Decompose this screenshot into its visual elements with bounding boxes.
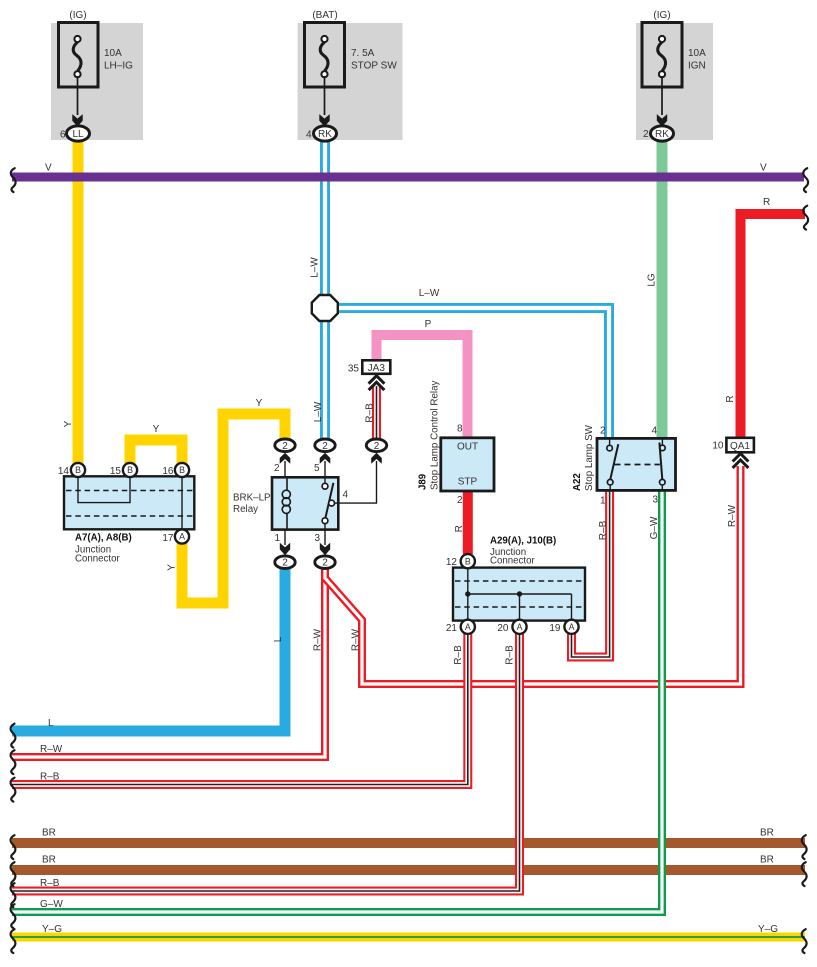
svg-text:7. 5A: 7. 5A [351, 48, 375, 59]
label Y pin 17 wire [167, 564, 178, 571]
svg-text:R–W: R–W [727, 504, 738, 527]
relay switch [322, 477, 334, 529]
fuse block background middle [298, 23, 403, 140]
label P [425, 319, 432, 330]
svg-text:V: V [45, 163, 52, 174]
label (IG) fuse 1 [69, 10, 86, 21]
node 12 B [446, 554, 475, 568]
break mark R-B bus left [11, 778, 16, 802]
svg-text:P: P [425, 319, 432, 330]
wire G-W from A22 pin 3 to left bus [12, 490, 662, 912]
relay pin 5 stub [314, 453, 330, 478]
wire Y-G bus [12, 933, 805, 942]
break mark V bus right [803, 168, 808, 192]
node 16 B [162, 463, 189, 477]
label (IG) fuse 3 [653, 10, 670, 21]
fuse 7.5A STOP SW [305, 23, 345, 127]
break mark Y-G bus right [802, 929, 807, 953]
svg-text:2: 2 [322, 441, 328, 452]
label BR lower left [42, 855, 56, 866]
svg-text:A7(A), A8(B): A7(A), A8(B) [75, 533, 132, 544]
svg-text:6: 6 [60, 130, 66, 141]
svg-text:2: 2 [282, 558, 288, 569]
label G-W bus [40, 899, 63, 910]
label Y jumper [153, 424, 160, 435]
label pin 8 [457, 424, 463, 435]
connector 2 RK [643, 126, 674, 141]
svg-text:Y: Y [153, 424, 160, 435]
svg-text:R–B: R–B [40, 772, 60, 783]
label R-B lower bus [40, 878, 60, 889]
svg-text:2: 2 [600, 426, 606, 437]
svg-text:4: 4 [306, 130, 312, 141]
svg-text:3: 3 [652, 495, 658, 506]
break mark R-W bus left [11, 750, 16, 774]
svg-text:IGN: IGN [688, 61, 706, 72]
wire R-W from QA1 down and across to relay pin 3 branch [325, 466, 741, 684]
svg-text:R–W: R–W [351, 628, 362, 651]
svg-text:2: 2 [643, 129, 649, 140]
wire R-B from A22 pin 1 to A29 pin 19 [572, 490, 610, 657]
svg-text:Stop Lamp SW: Stop Lamp SW [584, 424, 595, 491]
svg-text:14: 14 [58, 466, 70, 477]
label R-B pin21 wire [453, 645, 464, 665]
svg-text:J89: J89 [418, 473, 429, 490]
svg-text:L–W: L–W [310, 257, 321, 278]
label 10A IGN [688, 48, 706, 72]
svg-text:LH–IG: LH–IG [104, 61, 133, 72]
fuse block background right [636, 23, 713, 140]
label 7.5A STOP SW [351, 48, 397, 72]
connector 10 QA1 [712, 438, 754, 453]
fuse block background left [51, 23, 143, 140]
svg-text:Stop Lamp Control Relay: Stop Lamp Control Relay [430, 380, 441, 490]
switch A22 Stop Lamp SW box [597, 438, 676, 490]
relay pin 3 stub [314, 530, 330, 556]
svg-text:A: A [465, 622, 471, 632]
svg-text:BR: BR [760, 855, 774, 866]
break mark Y-G bus left [11, 929, 16, 953]
svg-text:BR: BR [760, 828, 774, 839]
label BR upper left [42, 828, 56, 839]
label Y top horizontal [256, 398, 263, 409]
node 20 A [497, 620, 526, 634]
svg-text:R–W: R–W [313, 628, 324, 651]
wire Y jumper A7 pin 15 to pin 16 [130, 440, 182, 464]
svg-text:2: 2 [322, 558, 328, 569]
svg-text:R–B: R–B [40, 878, 60, 889]
wire Y from fuse LH-IG to junction A7 pin 14 [73, 140, 84, 464]
wire R-B from JA3 to relay pin 4 oval [372, 386, 381, 439]
svg-text:L–W: L–W [419, 288, 440, 299]
svg-text:OUT: OUT [457, 442, 478, 453]
label J89 Stop Lamp Control Relay [418, 380, 441, 490]
break mark BR upper right [802, 835, 807, 859]
wire BR bus lower [12, 865, 805, 875]
wire R from J89 STP pin 2 to A29 pin 12 [463, 491, 473, 554]
node 15 B [110, 463, 137, 477]
label L-W lower [313, 401, 324, 422]
svg-text:1: 1 [600, 496, 606, 507]
wire L from relay pin 1 to left bus [12, 568, 285, 731]
svg-text:10: 10 [712, 441, 724, 452]
relay pin 4 link to R-B oval [335, 461, 377, 503]
wire L-W from octagon junction to A22 pin 2 [336, 308, 609, 439]
svg-text:R: R [725, 395, 736, 402]
connector 35 JA3 [348, 360, 390, 374]
svg-text:QA1: QA1 [730, 441, 750, 452]
node relay pin 3 oval [315, 556, 335, 569]
wire R-B from A29 pin 20 to left bus [12, 632, 520, 891]
node 19 A [549, 620, 578, 634]
svg-text:L–W: L–W [313, 401, 324, 422]
svg-text:JA3: JA3 [368, 363, 386, 374]
svg-text:2: 2 [374, 441, 380, 452]
svg-text:R–W: R–W [40, 744, 63, 755]
svg-text:BR: BR [42, 828, 56, 839]
label R STP wire [454, 525, 465, 532]
svg-text:STP: STP [458, 477, 478, 488]
label R-W relay left [313, 628, 324, 651]
svg-text:A: A [517, 622, 523, 632]
label R-W QA1 wire [727, 504, 738, 527]
label L-W horizontal [419, 288, 440, 299]
node relay pin 4 oval [366, 439, 386, 452]
relay coil [282, 477, 290, 529]
svg-text:8: 8 [457, 424, 463, 435]
svg-text:B: B [75, 465, 81, 475]
svg-text:(IG): (IG) [69, 10, 86, 21]
svg-text:Y: Y [63, 420, 74, 427]
svg-text:A29(A), J10(B): A29(A), J10(B) [490, 536, 556, 547]
break mark R-B lower bus left [11, 883, 16, 907]
label L bus [48, 718, 54, 729]
label LG [647, 273, 658, 287]
JA3 double chevron [369, 376, 385, 390]
break mark BR upper left [11, 835, 16, 859]
svg-text:2: 2 [274, 463, 280, 474]
svg-text:2: 2 [282, 441, 288, 452]
label V left [45, 163, 52, 174]
svg-text:4: 4 [343, 490, 349, 501]
svg-text:STOP SW: STOP SW [351, 61, 397, 72]
svg-text:R: R [454, 525, 465, 532]
relay pin 2 stub [274, 453, 290, 478]
wire R-W from relay pin 3 to left bus [12, 568, 325, 757]
label R-W relay right [351, 628, 362, 651]
svg-text:L: L [273, 636, 284, 642]
svg-text:R–B: R–B [453, 645, 464, 665]
label R-B pin20 wire [505, 645, 516, 665]
node relay pin 5 oval [315, 439, 335, 452]
svg-text:12: 12 [446, 557, 458, 568]
label A29(A) J10(B) Junction Connector [490, 536, 556, 567]
label R-B JA3 wire [365, 403, 376, 423]
label R-B bus [40, 772, 60, 783]
svg-text:3: 3 [314, 533, 320, 544]
svg-text:LL: LL [72, 129, 84, 140]
svg-text:V: V [760, 163, 767, 174]
label A22 pins [600, 426, 659, 507]
svg-text:2: 2 [457, 495, 463, 506]
break mark G-W bus left [11, 904, 16, 928]
label R top right [763, 197, 770, 208]
relay pin 4 arrow [371, 453, 382, 464]
svg-text:Connector: Connector [75, 554, 120, 565]
break mark BR lower right [802, 862, 807, 886]
svg-text:Y: Y [167, 564, 178, 571]
wire V power bus [12, 173, 804, 182]
octagon junction node L-W [312, 295, 338, 321]
label L wire vertical [273, 636, 284, 642]
node relay pin 2 oval [275, 439, 295, 452]
svg-text:(BAT): (BAT) [312, 10, 337, 21]
svg-text:15: 15 [110, 466, 122, 477]
wire BR bus upper [12, 838, 805, 848]
svg-text:Y: Y [256, 398, 263, 409]
label R-B A22 pin1 wire [598, 520, 609, 540]
svg-text:10A: 10A [104, 48, 122, 59]
svg-text:4: 4 [651, 426, 657, 437]
svg-text:5: 5 [314, 463, 320, 474]
label R-W bus [40, 744, 63, 755]
svg-text:B: B [179, 465, 185, 475]
svg-text:G–W: G–W [40, 899, 63, 910]
wire R top right feed to QA1 [741, 214, 806, 438]
node relay pin 1 oval [275, 556, 295, 569]
svg-text:R–B: R–B [505, 645, 516, 665]
fuse 10A LH-IG [59, 23, 99, 127]
connector 6 LL [60, 126, 90, 141]
connector 4 RK [306, 126, 337, 141]
svg-text:A22: A22 [572, 473, 583, 491]
svg-text:RK: RK [318, 129, 332, 140]
junction connector A29(A) J10(B) box [453, 568, 585, 621]
break mark V bus left [11, 168, 16, 192]
label BR upper right [760, 828, 774, 839]
QA1 double chevron [733, 454, 749, 468]
fuse 10A IGN [642, 23, 682, 127]
label (BAT) fuse 2 [312, 10, 337, 21]
svg-text:BR: BR [42, 855, 56, 866]
wire LG from fuse IGN to A22 pin 4 [657, 140, 668, 439]
svg-text:RK: RK [655, 129, 669, 140]
svg-text:B: B [127, 465, 133, 475]
svg-text:Y–G: Y–G [42, 924, 62, 935]
label BR lower right [760, 855, 774, 866]
label pin 2 J89 [457, 495, 463, 506]
relay BRK-LP box [272, 477, 338, 529]
svg-text:16: 16 [162, 466, 174, 477]
wire P from JA3 to J89 pin 8 OUT [377, 335, 468, 438]
svg-text:A: A [569, 622, 575, 632]
svg-text:Connector: Connector [490, 556, 535, 567]
svg-text:35: 35 [348, 364, 360, 375]
svg-text:R–B: R–B [365, 403, 376, 423]
svg-text:(IG): (IG) [653, 10, 670, 21]
svg-text:21: 21 [446, 623, 458, 634]
svg-text:L: L [48, 718, 54, 729]
label R right vertical [725, 395, 736, 402]
svg-text:R: R [763, 197, 770, 208]
svg-text:LG: LG [647, 273, 658, 287]
label A22 Stop Lamp SW [572, 424, 595, 491]
break mark R wire right [803, 206, 808, 230]
relay J89 Stop Lamp Control Relay box [441, 438, 494, 491]
label BRK-LP Relay [233, 493, 271, 516]
wire R-B from A29 pin 21 to left bus [12, 632, 468, 785]
label V right [760, 163, 767, 174]
svg-text:10A: 10A [688, 48, 706, 59]
label Y-G right [758, 924, 778, 935]
label L-W upper [310, 257, 321, 278]
wire L-W from octagon junction to relay pin 5 [320, 320, 330, 439]
svg-text:Y–G: Y–G [758, 924, 778, 935]
label 10A LH-IG [104, 48, 133, 72]
svg-text:17: 17 [162, 533, 174, 544]
wire L-W from fuse STOP SW to octagon junction [320, 140, 330, 296]
label Y-G left [42, 924, 62, 935]
break mark L bus left [11, 724, 16, 748]
wire Y from A7 pin 17 to BRK-LP relay pin 2 [182, 414, 285, 603]
relay pin 1 stub [274, 530, 290, 556]
svg-text:R–B: R–B [598, 520, 609, 540]
node 21 A [446, 620, 475, 634]
svg-text:B: B [465, 556, 471, 566]
svg-text:A: A [179, 532, 185, 542]
label Y left wire [63, 420, 74, 427]
node 17 A [162, 529, 189, 544]
break mark BR lower left [11, 862, 16, 886]
label A7(A) A8(B) Junction Connector [75, 533, 132, 565]
junction connector A7(A) A8(B) box [64, 476, 194, 529]
svg-text:20: 20 [497, 623, 509, 634]
label G-W wire [649, 516, 660, 539]
svg-text:BRK–LP: BRK–LP [233, 493, 271, 504]
svg-text:1: 1 [274, 533, 280, 544]
svg-text:G–W: G–W [649, 516, 660, 539]
node 14 B [58, 463, 85, 477]
svg-text:Relay: Relay [233, 504, 258, 515]
svg-text:19: 19 [549, 623, 561, 634]
